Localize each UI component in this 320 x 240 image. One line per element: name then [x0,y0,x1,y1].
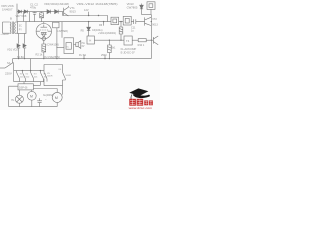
svg-text:~310V: ~310V [0,32,9,36]
switch K6 [63,72,66,80]
label 310V [0,32,9,36]
label FL-AV block [121,47,137,54]
switch SA [0,67,5,69]
label VD9 VD10 [44,2,69,6]
svg-text:3C: 3C [19,24,22,27]
svg-text:470u: 470u [30,6,37,10]
svg-text:220V: 220V [5,72,12,76]
svg-text:DSP-06: DSP-06 [19,86,28,89]
label 220V [5,72,12,76]
svg-text:FL-AV/COMP: FL-AV/COMP [121,47,137,51]
logo cap [129,88,150,100]
svg-text:FY: FY [19,29,22,32]
relay box J2 [147,2,155,10]
wire rail3 [13,58,152,60]
node x121 [120,21,121,22]
svg-text:S0 8A: S0 8A [17,56,24,59]
svg-text:+VD14(1N4001): +VD14(1N4001) [98,32,116,35]
wire verticals to box B1 [17,12,30,22]
wire rail3 to rail4 [30,59,32,71]
wire rail2 [63,12,108,22]
transistor VT3 [151,36,158,45]
wire right vertical [150,15,152,59]
wire top rail [17,11,62,13]
label FU1 [44,56,60,59]
transistor VT1 [62,6,68,16]
diode VD1 [17,44,20,59]
diode VD9 [47,10,51,14]
svg-text:R10 1: R10 1 [138,44,145,47]
switch K1 [17,71,20,82]
node stub 12V [88,12,90,16]
wire drop x88 [88,22,90,28]
svg-text:500R: 500R [47,76,53,78]
IC box T4 [124,36,132,45]
label VT1 9013 [70,6,77,13]
svg-text:9013: 9013 [152,24,158,27]
label CW4100 [36,43,59,57]
switch K3 [31,71,34,82]
node stub R6 [103,22,105,26]
svg-text:B: B [10,16,12,20]
svg-text:FU1 5A(250V): FU1 5A(250V) [44,56,60,59]
diode VD10 [55,10,59,14]
wire rail4b [14,81,44,83]
svg-text:HA: HA [82,42,86,45]
resistor R2 [42,44,46,52]
wire drops below box B1 [19,34,25,44]
wire K-rect [44,65,63,73]
diode VD13 [140,4,144,15]
wire B2 down [56,28,58,59]
switch K4 [40,71,43,82]
label VD5 VD6 [1,4,15,11]
svg-text:M: M [55,96,58,100]
box timer [18,84,33,90]
resistor R8 hatched [120,25,122,27]
label VD1 VD2 [7,47,18,51]
svg-text:1N4007: 1N4007 [2,7,13,11]
diode VD4 [87,27,91,36]
relay box J1 [123,16,131,25]
svg-text:CW7805: CW7805 [127,6,138,10]
transistor VT2 [145,17,152,25]
switch K5 [44,72,47,81]
box IC2 [111,17,119,24]
wire left drop [9,86,18,106]
svg-text:250V: 250V [101,54,107,57]
motor M2 [52,92,62,102]
diode VD2 [23,44,26,59]
diode VD6 [24,10,27,13]
wire rail1 [26,21,145,23]
svg-text:12V: 12V [84,8,89,12]
lamp HL [15,95,23,103]
diode VD5 [18,10,21,13]
svg-text:3u(400V): 3u(400V) [43,94,53,97]
svg-text:R2 1k: R2 1k [36,53,43,57]
node stub FU [83,55,85,58]
resistor R10 [132,39,138,41]
capacitor C11 [134,19,136,24]
resistor R9 vertical [108,40,110,45]
node on rail2 [98,15,99,16]
wire rail4 [14,70,44,72]
relay box H [87,36,94,44]
box B1 [18,22,27,34]
IC box IC1 [57,30,68,33]
svg-text:500R: 500R [66,75,72,77]
label VD14 [98,32,116,35]
wire top right [142,14,152,16]
buzzer HA [74,41,81,49]
motor M1 [27,91,36,100]
label VD7 VD8 [16,14,27,18]
svg-text:VT2: VT2 [152,18,157,21]
svg-text:FU 8A: FU 8A [79,54,86,57]
label S0 [17,56,24,59]
svg-text:VD9,VD10(1N4148): VD9,VD10(1N4148) [44,2,69,6]
node stub 250V [104,55,106,58]
box B2 [53,22,59,28]
svg-text:M: M [30,94,33,98]
svg-text:H: H [89,39,91,43]
wire H to T4 [94,39,124,41]
wire to IC1 [57,46,64,48]
svg-text:VD9~VD12 1N4148(7805): VD9~VD12 1N4148(7805) [77,2,118,6]
logo char dianzi [144,100,153,105]
svg-text:E-JD-DC-07: E-JD-DC-07 [121,51,136,55]
capacitor C1 [33,12,37,22]
transformer B [10,16,12,20]
svg-text:SA: SA [7,61,11,65]
capacitor C12 [37,98,42,106]
label VD11 text [77,2,118,6]
switch K2 [22,71,25,82]
wire box drops [19,82,40,96]
svg-text:VD1 VD2: VD1 VD2 [7,47,18,51]
logo char sheng [129,99,143,106]
tube V1 [36,24,51,39]
resistor R1 [40,12,44,22]
wire J2 drop [150,9,152,14]
label C1 C2 [30,2,38,9]
svg-text:9013: 9013 [70,9,77,13]
svg-text:T4: T4 [126,39,130,43]
svg-text:6V: 6V [82,46,85,48]
wire rail6 [9,106,58,108]
svg-text:www.dzsc.com: www.dzsc.com [129,107,153,110]
label VD13 CW7805 [127,2,138,10]
svg-text:5k1: 5k1 [111,46,116,49]
